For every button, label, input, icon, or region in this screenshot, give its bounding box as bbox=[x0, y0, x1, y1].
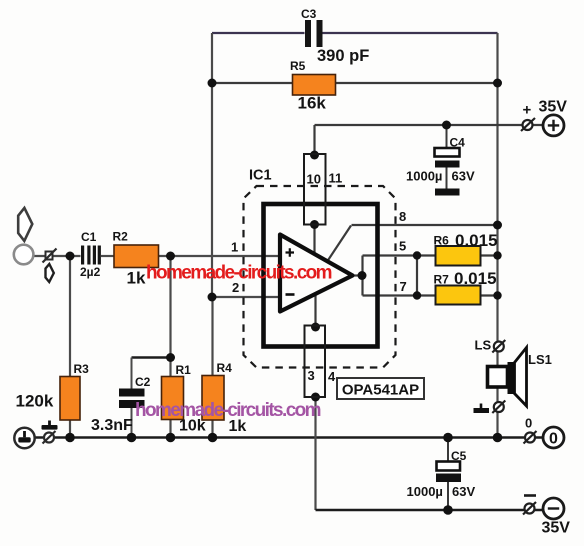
wire R5 row right bbox=[336, 82, 498, 84]
svg-text:C4: C4 bbox=[450, 136, 466, 150]
capacitor C1 bbox=[80, 230, 101, 279]
loudspeaker LS1 bbox=[488, 348, 527, 407]
node R6 right bbox=[493, 251, 501, 259]
wire input to C1 bbox=[34, 255, 81, 257]
wire R3 top stem bbox=[69, 256, 71, 377]
svg-text:390 pF: 390 pF bbox=[317, 47, 369, 65]
svg-text:R4: R4 bbox=[217, 361, 233, 375]
svg-text:R6: R6 bbox=[434, 234, 450, 248]
svg-text:5: 5 bbox=[399, 239, 406, 254]
svg-text:0.015: 0.015 bbox=[454, 269, 497, 288]
node ground C2 bbox=[127, 433, 137, 443]
wire pin5 row bbox=[363, 254, 498, 256]
node pin3 box top bbox=[311, 323, 320, 332]
node pin3 box bottom bbox=[311, 393, 320, 402]
svg-text:2µ2: 2µ2 bbox=[80, 265, 101, 279]
svg-text:R5: R5 bbox=[290, 59, 306, 73]
svg-text:C3: C3 bbox=[301, 7, 317, 21]
wire +35V rail bbox=[315, 124, 544, 126]
IC1 dashed package outline bbox=[244, 168, 396, 368]
resistor R7 bbox=[434, 269, 497, 305]
wire triangle to pin3 box bbox=[314, 294, 316, 327]
wire C4 top stem bbox=[446, 125, 448, 148]
node C2/R1 bbox=[166, 353, 175, 362]
IC1 inner solid box bbox=[264, 204, 378, 347]
svg-text:C1: C1 bbox=[81, 230, 97, 244]
wire left feedback vertical bbox=[211, 33, 213, 297]
node pin2 feedback bbox=[208, 293, 217, 302]
wire rail to pin10/11 box bbox=[313, 125, 315, 154]
wire apex stub bbox=[353, 274, 362, 276]
OPA541AP part label box bbox=[337, 378, 424, 399]
svg-text:1000µ: 1000µ bbox=[406, 169, 442, 184]
svg-text:1000µ: 1000µ bbox=[407, 484, 443, 499]
wire node A to C2 bbox=[132, 356, 171, 359]
0V output terminal bbox=[543, 427, 564, 448]
node ground speaker bbox=[493, 433, 503, 443]
node ground R3 bbox=[65, 433, 75, 443]
wire pin7 row bbox=[363, 294, 498, 296]
resistor R4 bbox=[202, 361, 246, 435]
wire R2 to pin1 bbox=[159, 255, 281, 257]
node ground R1 bbox=[166, 433, 176, 443]
wire C5 bottom stem bbox=[447, 482, 449, 510]
node C4 on +35V rail bbox=[442, 121, 451, 130]
svg-text:0: 0 bbox=[525, 416, 532, 431]
node R3 top bbox=[66, 252, 75, 261]
svg-text:11: 11 bbox=[329, 171, 343, 186]
wire right output vertical bbox=[496, 33, 498, 438]
-35V supply connector bbox=[523, 496, 536, 515]
ground symbol near input bbox=[42, 421, 58, 430]
node C5 on -35V rail bbox=[443, 505, 453, 515]
node ground C5 bbox=[443, 433, 453, 443]
wire pin8 output row bbox=[352, 224, 498, 226]
wire node A vertical bbox=[169, 256, 171, 358]
svg-text:3: 3 bbox=[308, 368, 315, 383]
ground symbol near loudspeaker bbox=[474, 404, 490, 414]
pin 10/11 internal box bbox=[304, 154, 326, 225]
svg-text:1: 1 bbox=[231, 240, 238, 255]
svg-text:7: 7 bbox=[400, 279, 407, 294]
op-amp minus input mark bbox=[286, 293, 295, 296]
wire C1 to R2 bbox=[101, 255, 114, 257]
capacitor C4 bbox=[406, 136, 475, 196]
node R7 right bbox=[493, 291, 501, 299]
node feedback/R5 left bbox=[208, 79, 217, 88]
wire ground 0V row bbox=[35, 436, 544, 439]
wire R6 R7 link bbox=[416, 256, 418, 296]
svg-text:10: 10 bbox=[307, 172, 321, 187]
wire pin8 diagonal bbox=[328, 226, 352, 262]
svg-text:16k: 16k bbox=[298, 94, 327, 113]
input connector square bbox=[43, 249, 57, 263]
wire pin2 row bbox=[212, 296, 280, 298]
capacitor C5 bbox=[407, 449, 476, 499]
svg-text:1k: 1k bbox=[127, 269, 146, 288]
wire R1 bottom stem bbox=[169, 420, 171, 438]
svg-text:8: 8 bbox=[399, 209, 406, 224]
pin 3/4 internal box bbox=[305, 326, 326, 398]
wire C2 bottom stem bbox=[131, 408, 133, 438]
wire R3 bottom stem bbox=[69, 420, 71, 438]
resistor R6 bbox=[434, 231, 498, 266]
node R6 left bbox=[413, 251, 421, 259]
wire top feedback row left of C3 bbox=[212, 32, 305, 34]
svg-text:OPA541AP: OPA541AP bbox=[342, 382, 419, 399]
svg-text:120k: 120k bbox=[16, 392, 54, 411]
wire R1 top stem bbox=[169, 358, 171, 377]
wire R4 bottom stem bbox=[211, 420, 213, 438]
svg-text:63V: 63V bbox=[452, 484, 475, 499]
node R7 left bbox=[413, 291, 421, 299]
ground connector bottom-left bbox=[43, 431, 56, 444]
svg-text:4: 4 bbox=[328, 369, 336, 384]
svg-text:35V: 35V bbox=[542, 520, 571, 537]
svg-text:C2: C2 bbox=[135, 375, 151, 389]
svg-text:0: 0 bbox=[549, 431, 558, 448]
+35V supply connector bbox=[521, 118, 535, 131]
svg-text:+: + bbox=[523, 102, 532, 119]
wire R4 top stem bbox=[211, 297, 213, 376]
wire -35V rail bbox=[316, 509, 544, 511]
wire pin3 box down bbox=[314, 397, 316, 510]
svg-text:C5: C5 bbox=[451, 449, 467, 463]
wire C4 mid stem bbox=[446, 168, 448, 189]
wire apex loop vertical bbox=[361, 256, 363, 296]
input terminal circle bbox=[14, 245, 34, 265]
svg-text:R7: R7 bbox=[434, 273, 450, 287]
+35V supply terminal bbox=[543, 115, 564, 136]
svg-text:R2: R2 bbox=[113, 230, 129, 244]
svg-text:3.3nF: 3.3nF bbox=[91, 417, 133, 434]
svg-text:R1: R1 bbox=[176, 363, 192, 377]
ground terminal circle bottom-left bbox=[14, 428, 34, 448]
node feedback/R5 right bbox=[493, 79, 502, 88]
wire top feedback row right of C3 bbox=[323, 32, 498, 34]
resistor R2 bbox=[113, 230, 159, 288]
svg-text:63V: 63V bbox=[452, 169, 475, 184]
svg-text:homemade-circuits.com: homemade-circuits.com bbox=[135, 400, 321, 421]
svg-text:IC1: IC1 bbox=[249, 168, 272, 184]
-35V supply terminal bbox=[543, 498, 564, 519]
resistor R3 bbox=[16, 362, 90, 420]
loudspeaker connector bottom bbox=[492, 401, 505, 414]
0V output connector bbox=[524, 431, 537, 444]
wire C2 top stem bbox=[131, 358, 133, 389]
capacitor C3 bbox=[301, 7, 369, 65]
svg-text:homemade-circuits.com: homemade-circuits.com bbox=[146, 263, 332, 284]
node pin8 output bbox=[493, 221, 502, 230]
node ground R4 bbox=[208, 433, 218, 443]
input signal arrow small bbox=[46, 264, 54, 282]
wire R5 row left bbox=[212, 82, 293, 84]
node pin10 box top bbox=[310, 151, 319, 160]
wire pin10 box to triangle bbox=[313, 225, 315, 255]
op-amp plus input mark bbox=[286, 248, 295, 256]
input signal arrow large bbox=[18, 208, 32, 241]
resistor R5 bbox=[290, 59, 336, 113]
wire C5 top stem bbox=[447, 438, 449, 462]
node op-amp output apex bbox=[358, 271, 367, 280]
op-amp U1 triangle bbox=[280, 235, 353, 312]
node pin10 box bottom bbox=[310, 220, 319, 229]
svg-text:35V: 35V bbox=[539, 99, 568, 116]
capacitor C2 bbox=[91, 375, 151, 434]
svg-text:0.015: 0.015 bbox=[455, 231, 498, 250]
svg-text:R3: R3 bbox=[74, 362, 90, 376]
svg-text:LS: LS bbox=[475, 338, 492, 353]
loudspeaker connector top bbox=[492, 340, 505, 353]
+35V label bbox=[523, 99, 568, 119]
resistor R1 bbox=[162, 363, 206, 435]
svg-text:LS1: LS1 bbox=[528, 352, 552, 367]
node A R2/pin1 bbox=[166, 252, 175, 261]
